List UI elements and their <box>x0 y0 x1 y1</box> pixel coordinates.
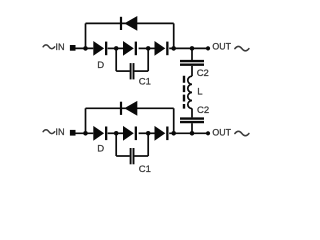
svg-text:OUT: OUT <box>212 42 231 52</box>
svg-text:D: D <box>97 144 104 155</box>
svg-text:IN: IN <box>55 42 64 52</box>
svg-text:IN: IN <box>55 127 64 137</box>
svg-text:OUT: OUT <box>212 128 231 138</box>
svg-text:C2: C2 <box>197 105 209 116</box>
svg-text:C1: C1 <box>139 164 151 175</box>
svg-text:D: D <box>97 60 104 71</box>
svg-text:C1: C1 <box>139 76 151 87</box>
svg-text:C2: C2 <box>197 68 209 79</box>
svg-text:L: L <box>197 87 202 98</box>
